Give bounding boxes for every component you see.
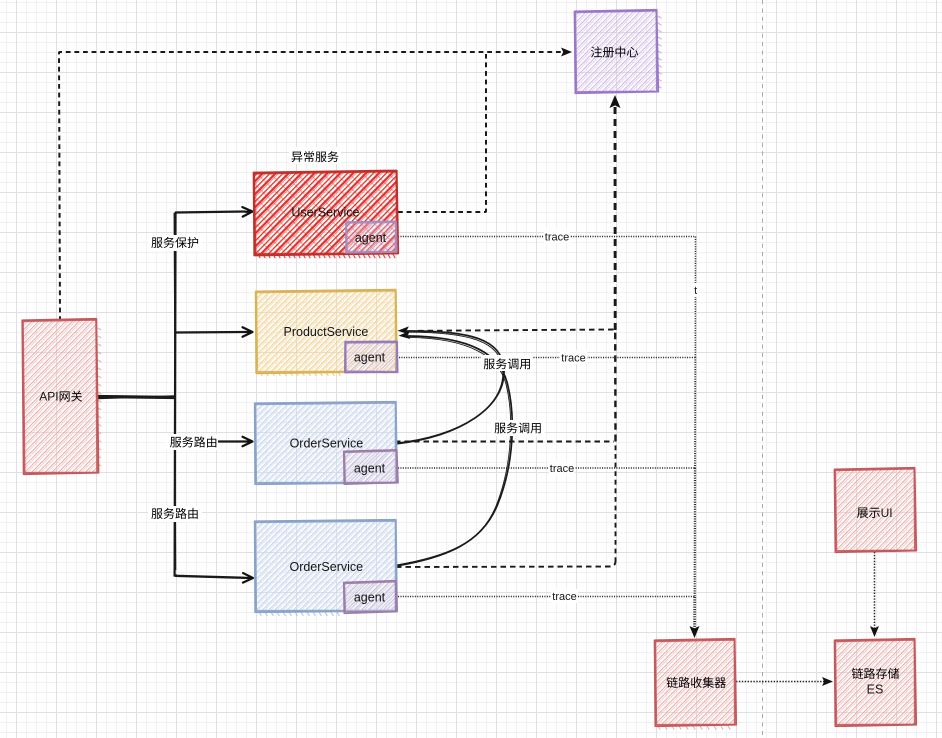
edge label: service protection: [148, 235, 202, 251]
svg-text:UI: UI: [881, 506, 893, 520]
node label: trace collector: [667, 677, 678, 688]
wire: branch to ProductService: [175, 331, 245, 334]
edge label: trace 3: [549, 461, 575, 475]
box: agent of OrderService 1: [344, 451, 397, 483]
svg-text:agent: agent: [354, 351, 386, 365]
box: OrderService 2 (blue): [255, 521, 396, 612]
wire: trace from ProductService agent (dotted): [399, 357, 695, 359]
wire: trace from UserService agent (dotted): [398, 236, 695, 238]
box: agent of OrderService 2: [344, 582, 396, 612]
svg-text:UserService: UserService: [291, 206, 359, 220]
node label: trace storage ES line1: [852, 668, 863, 679]
svg-text:API: API: [39, 390, 58, 404]
wire: OrderService1 calls ProductService (curve): [395, 331, 504, 444]
wire: ProductService to registry trunk (dashed): [418, 330, 614, 331]
fringe right of API gateway: [98, 328, 101, 466]
box: trace collector (pink): [655, 640, 736, 726]
wire: display UI to ES storage (dotted): [874, 552, 876, 630]
edge label: t: [691, 283, 700, 297]
svg-text:agent: agent: [354, 591, 386, 605]
box: API gateway (pink): [22, 320, 97, 474]
box: agent of UserService: [346, 222, 396, 252]
wire: trace trunk vertical (dotted): [694, 237, 696, 358]
box: UserService (red): [254, 171, 398, 254]
label: exception service title: [289, 147, 341, 164]
fringe under UserService: [258, 254, 395, 258]
box: registry center (purple): [575, 11, 658, 93]
box: ProductService (yellow): [256, 291, 397, 373]
edge label: service call 2: [491, 420, 545, 436]
fringe under OrderService2: [259, 612, 339, 616]
edge label: trace 2: [560, 350, 587, 364]
wire: branch to OrderService2: [175, 576, 245, 578]
wire: OrderService2 calls ProductService (curve): [396, 336, 512, 566]
wire: OrderService1 to registry trunk (dashed): [395, 441, 614, 443]
wire: trace from OrderService2 agent (dotted): [398, 596, 695, 598]
fringe under trace collector: [658, 726, 730, 730]
wire: branch to OrderService1: [175, 440, 245, 442]
svg-text:ES: ES: [867, 683, 884, 697]
svg-text:OrderService: OrderService: [290, 437, 364, 451]
svg-text:ProductService: ProductService: [284, 325, 369, 339]
box: display UI (pink): [835, 469, 916, 552]
wire: registry trunk vertical bold dashed: [615, 441, 617, 562]
svg-text:agent: agent: [354, 462, 386, 476]
svg-text:trace: trace: [545, 231, 569, 243]
edge label: service routing 1: [166, 434, 218, 450]
wire: branch to UserService: [175, 212, 245, 213]
fringe right of registry: [658, 16, 662, 88]
box: agent of ProductService: [345, 342, 397, 372]
wire: collector to ES storage (dotted): [736, 681, 826, 683]
wire: API gateway to registry (dashed): [59, 52, 565, 321]
wire: UserService to registry (dashed): [398, 54, 486, 212]
svg-text:t: t: [694, 285, 697, 297]
edge label: service routing 2: [148, 506, 202, 522]
page guide dashed line: [762, 0, 764, 738]
fringe under ProductService: [260, 372, 340, 376]
edge label: trace 4: [551, 589, 578, 603]
wire: OrderService2 to registry trunk (dashed): [396, 561, 616, 567]
svg-text:OrderService: OrderService: [289, 560, 363, 574]
wire: API gateway to routing trunk: [97, 397, 175, 398]
wire: trace from OrderService1 agent (dotted): [398, 467, 695, 469]
edge label: trace 1: [544, 229, 570, 243]
node label: registry center: [591, 46, 602, 57]
svg-text:agent: agent: [355, 231, 387, 245]
edge label: service call 1: [481, 355, 533, 371]
svg-text:trace: trace: [552, 591, 576, 603]
box: OrderService 1 (blue): [255, 403, 396, 484]
svg-text:trace: trace: [550, 463, 574, 475]
svg-text:trace: trace: [561, 352, 585, 364]
wire: routing trunk vertical: [175, 212, 177, 576]
box: trace storage ES (pink): [835, 640, 916, 726]
node label: display UI: [857, 507, 868, 517]
